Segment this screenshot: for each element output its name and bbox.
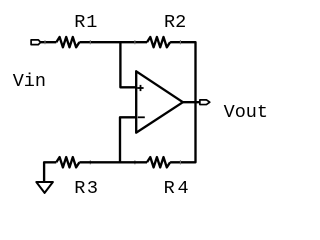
- pin tick: [89, 40, 91, 44]
- wire: R1 to R2 (node A, + feed tap): [79, 41, 147, 43]
- wire: R2 to right vertical down to R4 (output net): [170, 42, 195, 162]
- wire: op-amp output to Vout terminal: [183, 101, 200, 103]
- input port terminal Vin: [31, 40, 40, 45]
- svg-text:R2: R2: [164, 12, 186, 33]
- op-amp U1 triangle: [136, 71, 183, 132]
- pin tick: [179, 40, 181, 44]
- wire: node B up to op-amp - input: [120, 117, 138, 162]
- resistor R3: [56, 157, 79, 167]
- svg-text:Vin: Vin: [13, 71, 46, 92]
- ground: [36, 182, 53, 193]
- pin tick: [44, 40, 46, 44]
- wire: ground stem and corner to R3: [44, 162, 56, 181]
- pin tick: [134, 40, 136, 44]
- wire: R3 to R4 (node B, - feed tap): [79, 161, 147, 163]
- svg-text:R1: R1: [74, 12, 98, 33]
- pin tick: [89, 160, 91, 164]
- resistor R4: [147, 157, 170, 167]
- wire: Vin terminal to R1: [40, 41, 56, 43]
- pin tick: [179, 160, 181, 164]
- svg-text:Vout: Vout: [224, 102, 268, 123]
- svg-text:R3: R3: [74, 178, 99, 199]
- resistor R2: [147, 37, 170, 47]
- op-amp + input marking: [137, 85, 143, 91]
- output port terminal Vout: [200, 100, 210, 105]
- resistor R1: [56, 37, 79, 47]
- pin tick: [134, 160, 136, 164]
- svg-text:R4: R4: [164, 178, 192, 199]
- op-amp - input marking: [138, 116, 145, 118]
- wire: node A down to op-amp + input: [120, 42, 137, 87]
